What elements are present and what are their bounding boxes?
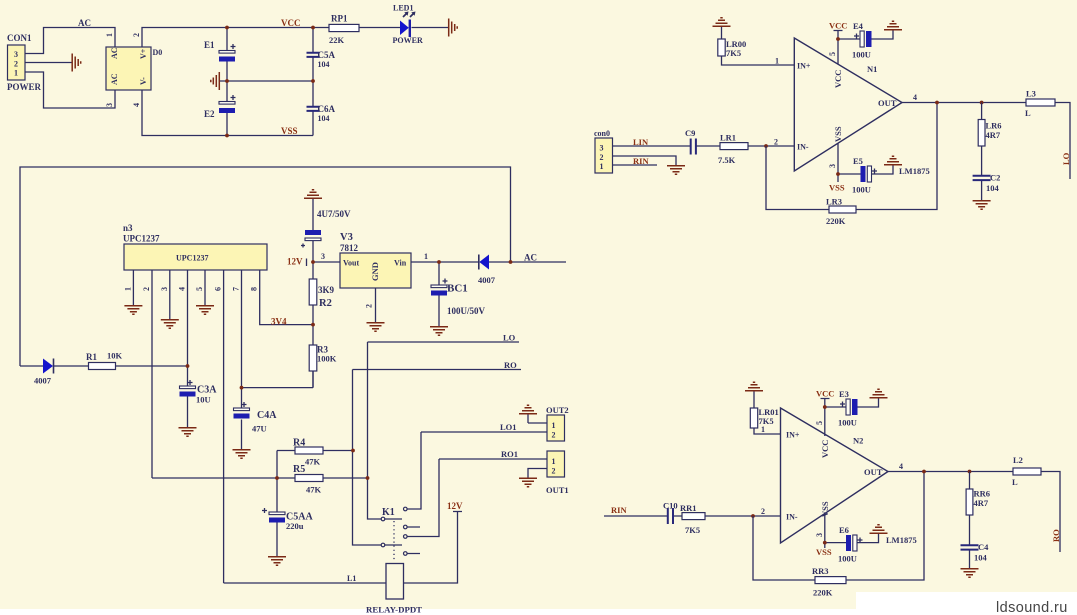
svg-text:V3: V3 <box>340 232 353 243</box>
svg-text:100U: 100U <box>838 418 857 428</box>
svg-text:VSS: VSS <box>829 183 845 193</box>
svg-text:12V: 12V <box>447 501 463 511</box>
svg-text:2: 2 <box>552 431 556 440</box>
svg-text:4007: 4007 <box>478 275 496 285</box>
svg-text:8: 8 <box>250 287 259 291</box>
svg-text:RR6: RR6 <box>974 489 991 499</box>
svg-text:E4: E4 <box>853 21 864 31</box>
svg-text:L2: L2 <box>1013 455 1023 465</box>
svg-text:AC: AC <box>524 253 537 263</box>
svg-text:IN-: IN- <box>786 513 798 522</box>
svg-text:AC: AC <box>110 73 119 85</box>
svg-text:E1: E1 <box>204 40 215 50</box>
svg-text:L3: L3 <box>1026 89 1036 99</box>
svg-text:E3: E3 <box>839 389 849 399</box>
svg-text:3K9: 3K9 <box>318 285 335 295</box>
svg-text:47K: 47K <box>306 485 322 495</box>
svg-text:LO: LO <box>503 333 516 343</box>
svg-text:LR1: LR1 <box>720 133 736 143</box>
svg-text:4: 4 <box>178 287 187 291</box>
svg-text:RO: RO <box>504 360 517 370</box>
svg-text:104: 104 <box>318 114 330 123</box>
svg-text:C10: C10 <box>663 501 678 511</box>
svg-text:L: L <box>1025 108 1031 118</box>
svg-text:RELAY-DPDT: RELAY-DPDT <box>366 605 422 615</box>
svg-text:47K: 47K <box>305 457 321 467</box>
svg-text:R5: R5 <box>293 464 305 475</box>
svg-text:2: 2 <box>552 467 556 476</box>
svg-text:IN+: IN+ <box>797 62 811 71</box>
svg-text:7K5: 7K5 <box>685 525 700 535</box>
svg-text:3: 3 <box>815 533 824 537</box>
svg-text:10U: 10U <box>196 395 211 405</box>
svg-text:RO: RO <box>1051 529 1061 542</box>
svg-text:VCC: VCC <box>816 389 834 399</box>
svg-text:LM1875: LM1875 <box>899 166 930 176</box>
svg-text:100U: 100U <box>852 185 871 195</box>
svg-text:1: 1 <box>600 162 604 171</box>
svg-text:5: 5 <box>195 287 204 291</box>
svg-text:N1: N1 <box>867 64 877 74</box>
svg-text:4: 4 <box>899 462 903 471</box>
svg-text:RIN: RIN <box>611 505 627 515</box>
svg-text:R4: R4 <box>293 438 305 449</box>
svg-text:2: 2 <box>600 153 604 162</box>
svg-text:1: 1 <box>123 287 132 291</box>
svg-text:C4A: C4A <box>257 410 277 421</box>
svg-text:100K: 100K <box>317 354 337 364</box>
svg-text:6: 6 <box>214 287 223 291</box>
svg-text:1: 1 <box>14 69 18 78</box>
svg-text:C9: C9 <box>685 128 695 138</box>
svg-text:220K: 220K <box>826 216 846 226</box>
svg-text:1: 1 <box>775 57 779 66</box>
svg-text:7.5K: 7.5K <box>718 155 736 165</box>
svg-text:C2: C2 <box>990 173 1000 183</box>
svg-text:LM1875: LM1875 <box>886 535 917 545</box>
svg-text:UPC1237: UPC1237 <box>123 234 160 244</box>
svg-text:K1: K1 <box>382 507 395 518</box>
svg-text:2: 2 <box>774 138 778 147</box>
svg-text:4: 4 <box>913 93 917 102</box>
svg-text:IN-: IN- <box>797 143 809 152</box>
svg-text:L1: L1 <box>347 574 356 583</box>
svg-text:LO1: LO1 <box>500 422 517 432</box>
svg-text:C6A: C6A <box>318 104 336 114</box>
svg-text:R2: R2 <box>319 298 332 309</box>
svg-text:V-: V- <box>139 77 148 85</box>
svg-text:7812: 7812 <box>340 243 359 253</box>
svg-text:POWER: POWER <box>393 36 423 45</box>
svg-text:220K: 220K <box>813 588 833 598</box>
svg-text:LO: LO <box>1061 152 1071 165</box>
svg-text:C5A: C5A <box>318 50 336 60</box>
svg-text:4U7/50V: 4U7/50V <box>317 209 351 219</box>
svg-text:VCC: VCC <box>820 440 830 458</box>
svg-text:1: 1 <box>552 457 556 466</box>
svg-text:D0: D0 <box>153 48 163 57</box>
svg-text:VCC: VCC <box>281 18 301 28</box>
svg-text:RIN: RIN <box>633 156 649 166</box>
svg-text:LR6: LR6 <box>986 121 1002 131</box>
svg-text:R1: R1 <box>86 352 97 362</box>
svg-text:VCC: VCC <box>833 70 843 88</box>
svg-text:L: L <box>1012 477 1018 487</box>
svg-text:1: 1 <box>761 425 765 434</box>
svg-text:UPC1237: UPC1237 <box>176 254 208 263</box>
svg-text:RR1: RR1 <box>680 503 697 513</box>
svg-text:E5: E5 <box>853 156 863 166</box>
svg-text:OUT1: OUT1 <box>546 485 569 495</box>
svg-text:2: 2 <box>14 60 18 69</box>
svg-text:4007: 4007 <box>34 376 52 386</box>
svg-text:AC: AC <box>78 18 91 28</box>
svg-text:10K: 10K <box>107 351 123 361</box>
svg-text:VSS: VSS <box>816 547 832 557</box>
svg-text:C4: C4 <box>978 542 989 552</box>
svg-text:100U: 100U <box>838 554 857 564</box>
svg-text:104: 104 <box>318 60 330 69</box>
svg-text:7: 7 <box>232 287 241 291</box>
svg-text:22K: 22K <box>329 35 345 45</box>
svg-text:con0: con0 <box>594 129 610 138</box>
svg-text:OUT: OUT <box>864 467 883 477</box>
svg-text:4: 4 <box>132 103 141 107</box>
svg-text:1: 1 <box>105 33 114 37</box>
svg-text:AC: AC <box>110 47 119 59</box>
svg-text:BC1: BC1 <box>447 283 468 295</box>
svg-text:Vin: Vin <box>394 259 407 268</box>
svg-text:104: 104 <box>974 553 988 563</box>
svg-text:E2: E2 <box>204 109 215 119</box>
svg-text:100U: 100U <box>852 50 871 60</box>
svg-text:3: 3 <box>828 164 837 168</box>
svg-text:2: 2 <box>761 507 765 516</box>
svg-text:Vout: Vout <box>343 259 359 268</box>
svg-text:LED1: LED1 <box>393 4 413 13</box>
svg-text:VSS: VSS <box>281 126 298 136</box>
svg-text:1: 1 <box>552 421 556 430</box>
svg-text:4R7: 4R7 <box>986 130 1001 140</box>
svg-text:N2: N2 <box>853 436 863 446</box>
svg-text:GND: GND <box>370 262 380 281</box>
svg-text:2: 2 <box>365 304 374 308</box>
svg-text:1: 1 <box>424 252 428 261</box>
svg-text:100U/50V: 100U/50V <box>447 306 486 316</box>
svg-text:220u: 220u <box>286 521 304 531</box>
svg-text:CON1: CON1 <box>7 33 32 43</box>
svg-text:LR3: LR3 <box>826 197 842 207</box>
svg-text:4R7: 4R7 <box>974 498 989 508</box>
svg-text:3: 3 <box>321 252 325 261</box>
svg-text:IN+: IN+ <box>786 431 800 440</box>
svg-text:ldsound.ru: ldsound.ru <box>996 600 1068 615</box>
svg-text:2: 2 <box>132 33 141 37</box>
svg-text:POWER: POWER <box>7 82 42 92</box>
svg-text:VCC: VCC <box>829 21 847 31</box>
svg-text:7K5: 7K5 <box>726 48 741 58</box>
svg-text:3: 3 <box>105 103 114 107</box>
svg-text:n3: n3 <box>123 223 133 233</box>
svg-text:3V4: 3V4 <box>271 317 287 327</box>
svg-text:47U: 47U <box>252 424 267 434</box>
svg-text:5: 5 <box>815 421 824 425</box>
svg-text:VSS: VSS <box>833 126 843 142</box>
svg-text:3: 3 <box>600 144 604 153</box>
svg-text:RO1: RO1 <box>501 449 518 459</box>
svg-text:3: 3 <box>160 287 169 291</box>
svg-text:RP1: RP1 <box>331 14 348 24</box>
svg-text:OUT2: OUT2 <box>546 405 569 415</box>
svg-text:V+: V+ <box>139 48 148 59</box>
svg-text:RR3: RR3 <box>812 566 829 576</box>
svg-text:OUT: OUT <box>878 98 897 108</box>
svg-text:E6: E6 <box>839 525 849 535</box>
svg-text:2: 2 <box>142 287 151 291</box>
svg-text:LIN: LIN <box>633 137 649 147</box>
svg-text:104: 104 <box>986 183 1000 193</box>
svg-text:3: 3 <box>14 50 18 59</box>
svg-text:12V: 12V <box>287 257 303 267</box>
svg-text:5: 5 <box>828 52 837 56</box>
